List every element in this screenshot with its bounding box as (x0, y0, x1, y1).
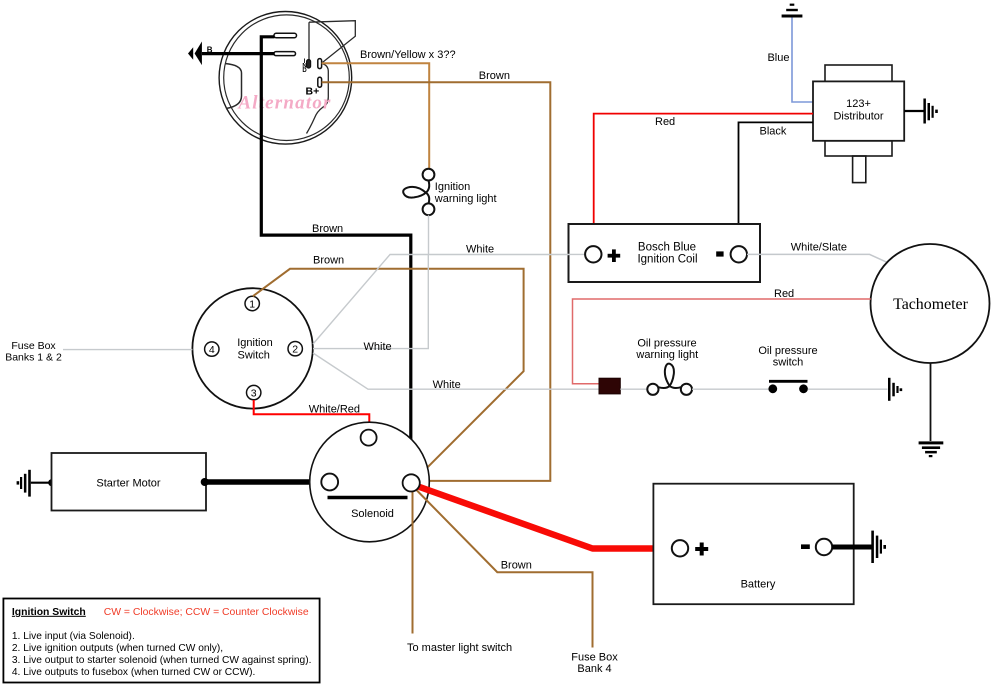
svg-text:Brown: Brown (313, 255, 344, 267)
svg-text:White/Red: White/Red (309, 404, 360, 416)
earth ground (tachometer) (919, 441, 944, 457)
pin 3 (247, 385, 261, 399)
tachometer gauge (871, 244, 990, 363)
wire brown/yellow IND to ignition warning light (322, 63, 430, 168)
wire white pin2 to oil warning (313, 353, 599, 389)
svg-text:Switch: Switch (237, 349, 269, 361)
svg-text:4. Live outputs to fusebox (wh: 4. Live outputs to fusebox (when turned … (12, 667, 255, 678)
earth ground (blue wire top) (782, 4, 803, 18)
svg-text:To master light switch: To master light switch (407, 642, 512, 654)
svg-text:Oil pressure: Oil pressure (637, 338, 696, 350)
wire white switch to ground (808, 388, 888, 390)
svg-text:Distributor: Distributor (833, 111, 883, 123)
wire thick black upper slot to solenoid (261, 37, 411, 475)
svg-text:Ignition Switch: Ignition Switch (12, 607, 86, 618)
alternator fin vertical line (308, 22, 310, 61)
svg-text:White: White (466, 244, 494, 256)
svg-text:Starter Motor: Starter Motor (96, 478, 161, 490)
distributor body U1 (813, 65, 904, 183)
ground battery (bars) (871, 531, 886, 563)
svg-text:4: 4 (209, 344, 215, 356)
ground starter (bars left) (17, 470, 31, 497)
starter motor box (52, 453, 207, 511)
solenoid left terminal (321, 474, 338, 491)
svg-text:Black: Black (760, 126, 787, 138)
alternator IND dark slot (307, 60, 311, 68)
wire white warning light to junction (428, 215, 430, 254)
wire brown solenoid to fusebox bank4 (416, 490, 593, 648)
svg-text:Oil pressure: Oil pressure (758, 345, 817, 357)
svg-text:CW = Clockwise; CCW = Counter: CW = Clockwise; CCW = Counter Clockwise (104, 607, 309, 618)
svg-text:warning light: warning light (635, 349, 698, 361)
svg-text:Red: Red (774, 288, 794, 300)
wire thick black B to lower slot (202, 52, 275, 55)
ground arrow B (chassis) (195, 42, 202, 66)
ignition switch body (192, 288, 312, 408)
alternator B+ terminal slot (318, 77, 322, 87)
coil + terminal (585, 246, 601, 262)
svg-text:White: White (364, 341, 392, 353)
wire brown solenoid to master light switch (412, 489, 414, 634)
wire white/red pin3 to solenoid (254, 400, 370, 429)
svg-text:1: 1 (249, 298, 255, 310)
svg-text:Ignition Coil: Ignition Coil (637, 253, 697, 265)
svg-text:Solenoid: Solenoid (351, 508, 394, 520)
wire blue ground to distributor (792, 18, 813, 103)
oil node square (599, 378, 620, 394)
wire white fusebox to switch (63, 349, 192, 351)
svg-text:2. Live ignition outputs (when: 2. Live ignition outputs (when turned CW… (12, 643, 223, 654)
wire brown B+ to solenoid (322, 82, 551, 481)
solenoid top terminal (361, 430, 377, 446)
svg-text:Fuse Box: Fuse Box (571, 652, 618, 664)
cable starter to solenoid (205, 479, 322, 485)
svg-text:Brown: Brown (479, 70, 510, 82)
wire white pin2 to coil (313, 255, 569, 345)
alternator inner body circle (224, 15, 350, 141)
legend box (3, 599, 319, 683)
svg-text:Brown: Brown (501, 560, 532, 572)
pin 4 (205, 342, 219, 356)
svg-text:3: 3 (251, 387, 257, 399)
alternator left notch (225, 64, 242, 109)
cable battery to ground (832, 545, 872, 550)
battery box (653, 484, 853, 605)
solenoid right terminal (403, 474, 420, 491)
svg-text:Brown: Brown (312, 223, 343, 235)
svg-text:Ignition: Ignition (237, 337, 272, 349)
wire starter to ground (31, 482, 52, 484)
wire tachometer to ground (930, 363, 932, 441)
oil pressure switch (769, 380, 808, 383)
battery minus sign (801, 544, 810, 549)
alternator right bracket (307, 63, 329, 133)
svg-text:Bank 4: Bank 4 (577, 663, 611, 675)
svg-text:Banks 1 & 2: Banks 1 & 2 (5, 352, 62, 364)
wire white square to lamp (620, 388, 647, 390)
svg-text:Brown/Yellow x 3??: Brown/Yellow x 3?? (360, 49, 456, 61)
wire red tachometer loop to oil square (573, 299, 871, 384)
svg-text:Tachometer: Tachometer (893, 296, 968, 313)
ignition warning light lamp (403, 169, 434, 216)
svg-text:123+: 123+ (846, 98, 871, 110)
coil - terminal (731, 246, 747, 262)
alternator upper terminal slot (274, 33, 297, 37)
coil minus sign (716, 251, 723, 256)
wire white lamp to switch (692, 388, 769, 390)
svg-text:White: White (433, 379, 461, 391)
alternator IND terminal slot (318, 59, 322, 69)
oil pressure warning light lamp (647, 364, 692, 395)
ground distributor (bars) (904, 110, 923, 112)
svg-text:Alternator: Alternator (237, 93, 331, 114)
svg-text:3. Live output to starter sole: 3. Live output to starter solenoid (when… (12, 655, 312, 666)
svg-text:1. Live input (via Solenoid).: 1. Live input (via Solenoid). (12, 631, 135, 642)
wire white through coil (569, 253, 586, 255)
svg-text:warning light: warning light (434, 193, 497, 205)
svg-text:Blue: Blue (767, 52, 789, 64)
svg-text:White/Slate: White/Slate (791, 242, 847, 254)
ignition coil box (569, 224, 761, 282)
svg-text:switch: switch (773, 357, 804, 369)
svg-text:2: 2 (292, 344, 298, 356)
battery plus sign (695, 543, 708, 556)
alternator fin (309, 21, 355, 64)
solenoid contact bar (328, 496, 408, 500)
wire black coil- to distributor (739, 122, 814, 247)
battery - terminal (816, 539, 832, 555)
svg-text:Red: Red (655, 116, 675, 128)
svg-text:D: D (302, 68, 307, 74)
svg-text:Ignition: Ignition (435, 181, 470, 193)
alternator outer circle (219, 12, 352, 145)
wire brown pin1 to solenoid (253, 269, 524, 478)
junction dot starter (201, 478, 209, 486)
pin 2 (288, 342, 302, 356)
wire white pin2 riser (313, 255, 428, 349)
wire white/slate coil to tachometer (747, 254, 887, 262)
pin 1 (245, 296, 259, 310)
svg-text:Battery: Battery (741, 579, 776, 591)
svg-text:Bosch Blue: Bosch Blue (638, 242, 696, 254)
coil plus sign (608, 249, 621, 262)
solenoid body (310, 422, 430, 542)
battery + terminal (672, 540, 688, 556)
wire red coil+ to distributor (594, 114, 813, 248)
svg-text:Fuse Box: Fuse Box (11, 340, 56, 352)
cable red solenoid to battery (414, 485, 672, 549)
ground oil switch (bars) (888, 378, 902, 401)
alternator lower terminal slot (274, 52, 296, 56)
